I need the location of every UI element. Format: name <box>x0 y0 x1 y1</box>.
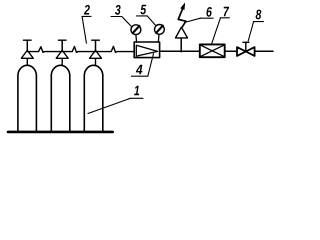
label 3 leader <box>122 17 131 27</box>
flame arrestor F1 box <box>200 44 225 57</box>
label 7 underline <box>220 17 229 19</box>
label 5 text <box>140 5 146 15</box>
valve V1 neck <box>26 58 28 65</box>
label 1 underline <box>130 97 143 99</box>
label 7 leader <box>211 18 220 45</box>
cylinder B3 <box>84 65 103 131</box>
label 5 leader <box>147 16 156 26</box>
valve V2 neck <box>61 58 63 65</box>
floor base line <box>8 131 113 134</box>
cylinder B1 <box>18 65 37 131</box>
valve V3 handle <box>92 39 100 41</box>
label 4 text <box>136 65 143 74</box>
valve V3 neck <box>95 58 97 65</box>
gauge M1 stem <box>135 35 138 42</box>
label 8 underline <box>254 21 264 23</box>
shutoff valve V8 bowtie <box>237 47 255 56</box>
main output wire segment 3 <box>255 50 273 52</box>
safety valve SV triangle <box>176 27 188 38</box>
valve V1 body triangle <box>21 50 33 58</box>
manifold wire with flexible hose kinks <box>27 46 134 52</box>
valve V2 stem <box>61 40 63 50</box>
label 6 underline <box>200 17 213 19</box>
vent arrow lightning bolt <box>178 7 186 28</box>
label 2 leader <box>82 17 86 44</box>
label 4 underline <box>132 75 148 77</box>
vent arrowhead <box>181 3 185 9</box>
label 1 text <box>134 86 139 95</box>
label 2 text <box>84 5 90 15</box>
safety valve SV stem <box>180 38 182 52</box>
label 6 leader <box>185 18 201 22</box>
valve V2 handle <box>58 39 66 41</box>
valve V2 body triangle <box>56 50 68 58</box>
valve V3 stem <box>95 40 97 50</box>
main output wire segment 1 <box>160 50 200 52</box>
gauge M1 circle <box>131 25 141 35</box>
label 4 leader <box>148 54 154 77</box>
gauge M2 needle <box>156 26 163 33</box>
valve V1 stem <box>26 40 28 50</box>
shutoff valve V8 handle <box>243 41 249 43</box>
gauge M2 stem <box>157 35 160 43</box>
gauge M2 circle <box>155 25 165 35</box>
cylinder B2 <box>51 65 70 131</box>
label 2 underline <box>82 15 91 17</box>
label 5 underline <box>137 15 148 17</box>
flame arrestor F1 cross <box>201 45 224 56</box>
label 8 text <box>256 10 262 20</box>
valve V1 handle <box>24 39 32 41</box>
label 3 underline <box>111 16 122 18</box>
label 1 leader <box>88 98 130 113</box>
label 3 text <box>115 5 121 15</box>
gauge M1 needle <box>133 26 140 33</box>
main output wire segment 2 <box>225 50 237 52</box>
label 7 text <box>224 7 230 16</box>
label 6 text <box>206 7 211 17</box>
shutoff valve V8 stem <box>245 43 247 52</box>
valve V3 body triangle <box>90 50 102 58</box>
regulator U1 box <box>134 42 159 58</box>
label 8 leader <box>248 22 253 41</box>
regulator U1 wedge <box>136 45 157 56</box>
